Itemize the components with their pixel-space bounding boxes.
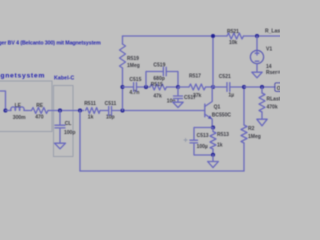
wire <box>48 110 84 112</box>
svg-text:300m: 300m <box>13 115 26 121</box>
svg-text:10p: 10p <box>106 115 115 121</box>
capacitor C513 <box>190 139 198 141</box>
svg-text:470k: 470k <box>267 105 278 111</box>
capacitor C519 loop <box>146 72 163 88</box>
svg-text:R511: R511 <box>84 101 96 107</box>
wire input from left edge <box>0 91 6 111</box>
node collector <box>211 85 215 89</box>
wire bottom rail <box>80 170 244 172</box>
svg-text:27k: 27k <box>193 93 202 99</box>
wire main rail seg1 <box>6 110 12 112</box>
wire output line <box>244 86 275 88</box>
svg-text:1k: 1k <box>217 142 223 148</box>
capacitor CL <box>59 111 61 126</box>
ground under R513 <box>212 155 214 162</box>
wire collector column up <box>212 36 214 87</box>
capacitor C517 <box>177 87 179 96</box>
wire top rail right <box>244 35 281 37</box>
resistor R519 <box>122 36 124 44</box>
svg-text:C511: C511 <box>105 101 117 107</box>
node emitter <box>211 125 215 129</box>
wire R2 top to output line <box>243 87 245 125</box>
svg-text:1Meg: 1Meg <box>127 63 140 69</box>
voltage source V1 <box>256 36 258 50</box>
svg-text:iger BV 4 (Belcanto 300) mit M: iger BV 4 (Belcanto 300) mit Magnetsyste… <box>0 41 101 47</box>
resistor RE <box>32 108 49 114</box>
svg-text:100p: 100p <box>64 130 75 136</box>
node input junction <box>3 108 7 112</box>
wire <box>27 110 32 112</box>
svg-text:10k: 10k <box>229 40 238 46</box>
capacitor C521 <box>213 86 226 88</box>
resistor R517 <box>189 84 206 90</box>
svg-text:C519: C519 <box>153 63 165 69</box>
ground under RLast <box>257 119 267 126</box>
svg-text:C515: C515 <box>129 77 141 83</box>
svg-text:C521: C521 <box>219 74 231 80</box>
svg-text:V1: V1 <box>266 47 272 53</box>
resistor R515 <box>150 84 167 90</box>
node output R2 <box>242 85 246 89</box>
Kabel-C box <box>54 86 74 157</box>
svg-text:RE: RE <box>36 103 44 109</box>
svg-text:CL: CL <box>65 121 72 127</box>
svg-text:R519: R519 <box>127 56 139 62</box>
resistor R511 <box>86 108 101 114</box>
svg-text:Out: Out <box>277 86 280 92</box>
svg-text:4.7n: 4.7n <box>129 90 139 96</box>
node supply junction <box>255 34 259 38</box>
output flag <box>275 83 287 92</box>
svg-text:Rser=600: Rser=600 <box>266 70 280 76</box>
resistor RLast <box>261 87 263 93</box>
capacitor C511 <box>108 107 110 116</box>
svg-text:1Meg: 1Meg <box>248 134 261 140</box>
svg-text:R_Last: R_Last <box>265 29 280 35</box>
wire emitter loop to C513 <box>194 128 213 140</box>
node base column <box>120 108 124 112</box>
resistor R521 <box>227 33 244 39</box>
node RLast tap <box>260 85 264 89</box>
wire top rail <box>123 35 228 37</box>
svg-text:Kabel-C: Kabel-C <box>54 75 74 81</box>
capacitor C515 <box>133 83 135 92</box>
svg-text:R521: R521 <box>227 29 239 35</box>
Magnetsystem box <box>0 81 52 132</box>
svg-text:1k: 1k <box>88 115 94 121</box>
svg-text:47k: 47k <box>153 94 162 100</box>
svg-text:1µ: 1µ <box>228 92 234 98</box>
ground under CL <box>55 143 66 149</box>
wire <box>123 86 134 88</box>
svg-text:R517: R517 <box>189 74 201 80</box>
svg-text:Q1: Q1 <box>214 105 221 111</box>
svg-text:R513: R513 <box>217 132 229 138</box>
svg-text:100µ: 100µ <box>197 144 208 150</box>
wire base rail <box>112 110 204 112</box>
node CL tap <box>58 108 62 112</box>
ground under C517 <box>173 102 183 107</box>
resistor R2 <box>241 125 247 143</box>
node bottom-rail tap <box>78 108 82 112</box>
wire <box>178 86 189 88</box>
node collector top <box>211 34 215 38</box>
svg-text:R515: R515 <box>151 82 163 88</box>
resistor R513 <box>212 128 214 132</box>
svg-text:LE: LE <box>15 103 22 109</box>
node <box>144 85 148 89</box>
svg-text:BC550C: BC550C <box>212 113 232 119</box>
svg-text:Magnetsystem: Magnetsystem <box>0 72 45 79</box>
wire <box>137 86 150 88</box>
node emitter bottom <box>211 153 215 157</box>
node feedback left <box>120 85 124 89</box>
wire up to R2 <box>243 143 245 171</box>
transistor Q1 <box>204 104 206 117</box>
node C517 tap <box>176 85 180 89</box>
wire down to bottom rail <box>79 111 81 172</box>
inductor LE <box>11 107 27 111</box>
ground under V1 <box>252 72 262 78</box>
svg-text:R2: R2 <box>248 126 255 132</box>
svg-text:470: 470 <box>35 114 44 120</box>
svg-text:C513: C513 <box>197 133 209 139</box>
wire feedback column down <box>122 87 124 111</box>
svg-text:RLast: RLast <box>267 96 281 102</box>
wire <box>100 110 108 112</box>
